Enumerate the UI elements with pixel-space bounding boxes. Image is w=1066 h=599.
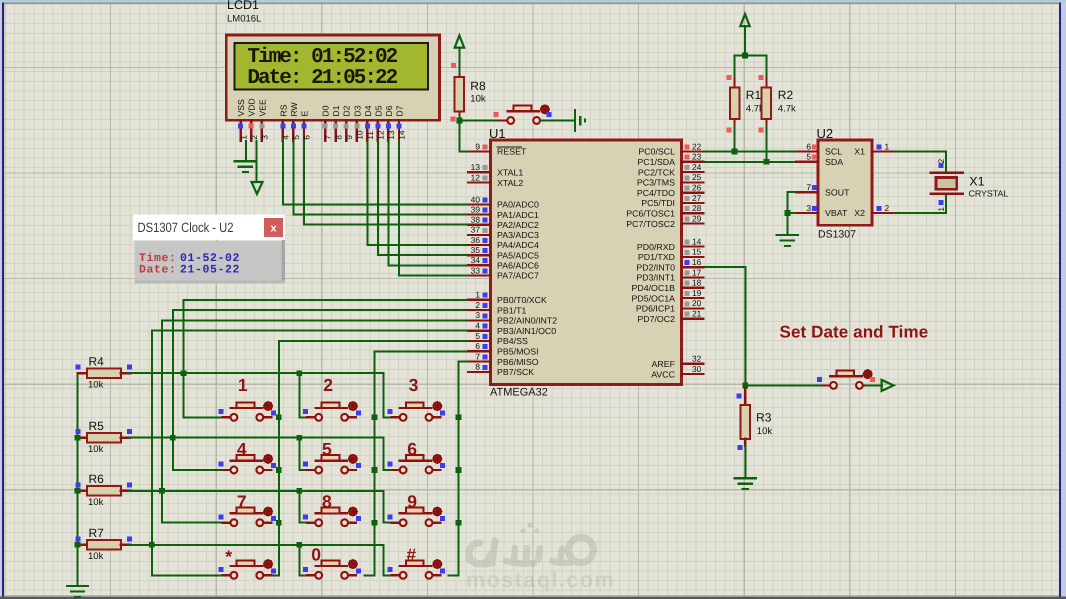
LCD pin 3 VEE	[257, 99, 269, 141]
svg-text:R5: R5	[89, 419, 105, 433]
svg-text:2: 2	[475, 300, 480, 310]
svg-text:PD0/RXD: PD0/RXD	[637, 242, 675, 252]
U1 pin 28 PC6/TOSC1	[626, 203, 703, 218]
pushbutton 9 actuation target	[433, 508, 441, 516]
U2 pin 6 SCL	[796, 141, 842, 156]
svg-text:D2: D2	[342, 105, 352, 116]
pushbutton 6 actuator bar	[400, 460, 432, 462]
pushbutton SET right terminal	[862, 384, 871, 386]
pushbutton 1 actuation target	[264, 402, 272, 410]
svg-text:E: E	[300, 111, 310, 117]
pushbutton SET actuation target	[864, 370, 872, 378]
svg-text:*: *	[225, 546, 232, 566]
pushbutton 0 left terminal	[307, 574, 316, 576]
resistor R4	[78, 368, 131, 378]
window bottom bar	[0, 597, 1066, 599]
wire U1 PB1 to keypad row 2	[173, 310, 468, 470]
wire junction row2-middle feed	[296, 435, 302, 441]
pushbutton 8 left terminal	[307, 522, 316, 524]
U1 pin 15 PD1/TXD	[638, 247, 704, 262]
svg-text:VBAT: VBAT	[825, 208, 848, 218]
wire VCC tee to R1 and R2	[735, 55, 767, 79]
pushbutton 6 actuation target	[433, 455, 441, 463]
svg-text:D1: D1	[331, 105, 341, 116]
ground under R3	[735, 477, 756, 479]
svg-text:39: 39	[471, 204, 481, 214]
svg-text:10k: 10k	[757, 426, 773, 437]
pushbutton 1 actuator bar	[231, 407, 263, 409]
rtc U2 body	[818, 140, 872, 225]
wire row 3 to middle button	[299, 491, 307, 523]
svg-text:PB7/SCK: PB7/SCK	[497, 367, 534, 377]
pushbutton 5 actuator bar	[316, 460, 348, 462]
pushbutton 7 right terminal	[263, 522, 272, 524]
wire SCL PC0 to U2	[704, 151, 797, 153]
U1 pin 14 PD0/RXD	[637, 236, 704, 251]
window top bar	[0, 0, 1066, 3]
power arrow right of set button	[882, 380, 894, 391]
svg-text:XTAL2: XTAL2	[497, 178, 523, 188]
svg-text:34: 34	[471, 255, 481, 265]
svg-text:18: 18	[692, 278, 702, 288]
svg-text:R6: R6	[89, 472, 105, 486]
resistor R7	[78, 540, 131, 550]
wire U1 PB5 keypad column 2	[363, 351, 468, 575]
pushbutton 2 actuation target	[349, 402, 357, 410]
wire junction rail-R5	[75, 435, 81, 441]
wire U1 PB4 keypad column 1	[268, 341, 468, 575]
svg-text:D4: D4	[363, 105, 373, 116]
svg-text:11: 11	[366, 131, 375, 140]
keypad button 6 state squares	[388, 462, 393, 467]
U1 pin 23 PC1/SDA	[637, 152, 703, 167]
resistor R8	[455, 74, 464, 117]
LCD pin 1 VSS	[236, 99, 248, 141]
R4 state squares	[76, 365, 81, 370]
pushbutton 9 left terminal	[392, 522, 401, 524]
svg-text:10k: 10k	[88, 379, 104, 390]
svg-text:SOUT: SOUT	[825, 187, 850, 197]
resistor R6	[78, 486, 131, 496]
pushbutton * actuation target	[264, 560, 272, 568]
svg-text:24: 24	[692, 162, 702, 172]
U2 pin 1 X1	[854, 141, 894, 156]
wire junction col1-row1	[276, 414, 282, 420]
pushbutton 9 actuator bar	[400, 512, 432, 514]
svg-text:PC1/SDA: PC1/SDA	[637, 157, 675, 167]
svg-text:D3: D3	[352, 105, 362, 116]
LCD pin 8 D1	[331, 105, 343, 141]
pushbutton SET actuator bar	[830, 375, 862, 377]
svg-text:#: #	[406, 544, 416, 564]
R1 terminal marker squares	[727, 75, 732, 80]
U1 pin 38 PA2/ADC2	[468, 215, 539, 230]
wire row 1 to middle button	[299, 373, 307, 417]
svg-text:3: 3	[475, 310, 480, 320]
pushbutton 4 actuator bar	[231, 460, 263, 462]
U1 pin 36 PA4/ADC4	[468, 235, 539, 250]
svg-text:Set Date and Time: Set Date and Time	[780, 323, 929, 342]
LCD pin 2 VDD	[247, 98, 259, 141]
svg-text:10k: 10k	[470, 94, 486, 105]
svg-text:XTAL1: XTAL1	[497, 168, 523, 178]
svg-text:R2: R2	[778, 88, 794, 102]
svg-text:D6: D6	[384, 105, 394, 116]
svg-text:35: 35	[471, 245, 481, 255]
svg-text:7: 7	[237, 492, 247, 512]
pushbutton RESET actuator bar	[508, 110, 540, 112]
svg-text:LM016L: LM016L	[227, 14, 261, 25]
svg-text:PD5/OC1A: PD5/OC1A	[631, 293, 675, 303]
wire U2 SOUT to ground	[787, 192, 796, 234]
svg-text:9: 9	[475, 141, 480, 151]
wire junction PB1-row2	[170, 435, 176, 441]
wire LCD D4 to U1 row 245.0	[367, 140, 468, 245]
svg-text:PC7/TOSC2: PC7/TOSC2	[626, 219, 675, 229]
U1 pin 32 AREF	[652, 354, 704, 369]
pushbutton 9 right terminal	[432, 522, 441, 524]
svg-text:21-05-22: 21-05-22	[180, 263, 240, 276]
reset button state squares	[494, 112, 499, 117]
LCD pin 6 E	[300, 111, 312, 142]
svg-text:PB1/T1: PB1/T1	[497, 305, 526, 315]
svg-text:38: 38	[471, 215, 481, 225]
svg-text:10k: 10k	[88, 497, 104, 508]
wire junction row4-middle feed	[296, 542, 302, 548]
resistor R1	[730, 78, 739, 128]
U2 pin 5 SDA	[796, 152, 843, 167]
wire junction PB0-row1	[181, 370, 187, 376]
wire row 2 to right button	[384, 438, 392, 470]
wire junction PB2-row3	[159, 488, 165, 494]
LCD pin 9 D2	[342, 105, 354, 141]
svg-text:14: 14	[692, 236, 702, 246]
svg-text:10k: 10k	[88, 551, 104, 562]
svg-text:2: 2	[323, 375, 333, 395]
wire LCD D5 to U1 row 255.2	[378, 140, 468, 255]
keypad button # state squares	[388, 567, 393, 572]
ground under U2	[777, 234, 798, 236]
U1 pin 16 PD2/INT0	[636, 257, 703, 272]
power arrow VCC above R8	[455, 35, 464, 47]
svg-text:PB2/AIN0/INT2: PB2/AIN0/INT2	[497, 316, 557, 326]
pushbutton 3 actuator bar	[400, 407, 432, 409]
keypad button 9 state squares	[388, 514, 393, 519]
crystal X1 body	[936, 178, 957, 190]
U1 pin 39 PA1/ADC1	[468, 204, 539, 219]
svg-text:Time: 01:52:02: Time: 01:52:02	[247, 46, 397, 69]
svg-text:6: 6	[475, 341, 480, 351]
svg-text:R1: R1	[746, 88, 762, 102]
popup DS1307 Clock window	[133, 215, 285, 284]
svg-text:PA2/ADC2: PA2/ADC2	[497, 220, 539, 230]
pushbutton 0 actuator bar	[316, 565, 348, 567]
svg-text:23: 23	[692, 152, 702, 162]
U1 pin 30 AVCC	[651, 364, 703, 379]
svg-text:VEE: VEE	[257, 99, 267, 116]
svg-text:29: 29	[692, 213, 702, 223]
svg-text:1: 1	[885, 141, 890, 151]
svg-text:PA7/ADC7: PA7/ADC7	[497, 271, 539, 281]
wire U2 X2 to crystal	[894, 195, 946, 213]
svg-text:PA6/ADC6: PA6/ADC6	[497, 261, 539, 271]
svg-text:R4: R4	[89, 354, 105, 368]
svg-text:7: 7	[806, 182, 811, 192]
svg-text:x: x	[270, 223, 277, 235]
pushbutton 1 left terminal	[222, 416, 231, 418]
wire U1 PB3 to keypad row 4	[152, 331, 468, 576]
LCD pin 11 D4	[363, 105, 375, 141]
LCD pin 5 RW	[289, 101, 301, 141]
svg-text:D0: D0	[321, 105, 331, 116]
resistor R3	[741, 389, 750, 446]
wire junction VCC tee	[742, 53, 748, 59]
pushbutton 4 actuation target	[264, 455, 272, 463]
U1 pin 8 PB7/SCK	[468, 362, 534, 377]
keypad button 0 state squares	[303, 567, 308, 572]
pushbutton 8 actuator bar	[316, 512, 348, 514]
keypad button 4 state squares	[218, 462, 223, 467]
pushbutton 3 left terminal	[392, 416, 401, 418]
pushbutton 3 actuation target	[433, 402, 441, 410]
wire keypad left rail to ground	[77, 373, 79, 585]
U1 pin 29 PC7/TOSC2	[626, 213, 703, 228]
wire junction col3-row1	[456, 414, 462, 420]
pushbutton 0 actuation target	[349, 560, 357, 568]
svg-text:D7: D7	[395, 105, 405, 116]
svg-text:21: 21	[692, 309, 702, 319]
svg-text:PD1/TXD: PD1/TXD	[638, 252, 675, 262]
svg-text:40: 40	[471, 194, 481, 204]
wire junction col2-row1	[372, 414, 378, 420]
wire U2 VBAT to ground branch	[787, 212, 796, 214]
wire R8 bottom to reset button	[459, 116, 507, 120]
pushbutton # right terminal	[432, 574, 441, 576]
wire junction to set button	[745, 385, 822, 387]
R6 state squares	[76, 482, 81, 487]
svg-text:5: 5	[292, 135, 301, 140]
wire R1 bottom to SCL line	[734, 126, 736, 152]
svg-text:0: 0	[311, 544, 321, 564]
ground under LCD	[235, 160, 256, 162]
pushbutton 3 right terminal	[432, 416, 441, 418]
svg-text:5: 5	[475, 331, 480, 341]
svg-text:PC3/TMS: PC3/TMS	[637, 178, 675, 188]
svg-text:SDA: SDA	[825, 157, 843, 167]
U1 pin 34 PA6/ADC6	[468, 255, 539, 270]
svg-text:PC4/TDO: PC4/TDO	[637, 188, 675, 198]
U1 pin 19 PD5/OC1A	[631, 288, 703, 303]
wire junction col3-row3	[456, 520, 462, 526]
wire junction R2-SDA	[764, 159, 770, 165]
svg-text:SCL: SCL	[825, 147, 842, 157]
pushbutton SET left terminal	[822, 384, 831, 386]
LCD pin 14 D7	[395, 105, 407, 141]
svg-text:13: 13	[471, 162, 481, 172]
wire set button to power arrow	[867, 384, 883, 386]
svg-text:27: 27	[692, 193, 702, 203]
svg-text:9: 9	[345, 135, 354, 140]
pushbutton * left terminal	[222, 574, 231, 576]
keypad button 7 state squares	[218, 514, 223, 519]
U1 pin 9 RESET	[468, 141, 527, 156]
pushbutton # actuator bar	[400, 565, 432, 567]
U1 pin 3 PB2/AIN0/INT2	[468, 310, 557, 325]
crystal X1 bottom plate	[931, 192, 963, 194]
resistor R2	[762, 78, 771, 128]
wire U1 PB0 to keypad row 1	[184, 300, 469, 418]
R2 terminal marker squares	[759, 75, 764, 80]
wire junction PD2-R3-button	[742, 383, 748, 389]
svg-text:22: 22	[692, 141, 702, 151]
keypad button 5 state squares	[303, 462, 308, 467]
svg-text:4: 4	[475, 321, 480, 331]
svg-text:1: 1	[937, 207, 946, 212]
svg-text:PD4/OC1B: PD4/OC1B	[631, 283, 675, 293]
wire row 4 to middle button	[299, 545, 307, 576]
pushbutton 2 right terminal	[348, 416, 357, 418]
svg-text:PC6/TOSC1: PC6/TOSC1	[626, 209, 675, 219]
wire junction col1-row3	[276, 520, 282, 526]
svg-text:AVCC: AVCC	[651, 369, 675, 379]
svg-text:4.7k: 4.7k	[778, 104, 796, 115]
wire keypad row 4	[129, 544, 384, 546]
U1 pin 26 PC4/TDO	[637, 183, 704, 198]
svg-text:6: 6	[303, 135, 312, 140]
U1 pin 6 PB5/MOSI	[468, 341, 539, 356]
wire LCD RS to U1 row 204.5	[283, 140, 468, 205]
wire junction PB3-row4	[149, 542, 155, 548]
svg-text:16: 16	[692, 257, 702, 267]
wire R8 junction to U1 RESET pin	[459, 120, 468, 151]
svg-text:14: 14	[398, 130, 407, 140]
svg-text:R7: R7	[89, 526, 105, 540]
U1 pin 35 PA5/ADC5	[468, 245, 539, 260]
pushbutton 5 actuation target	[349, 455, 357, 463]
sheet right border	[1059, 3, 1061, 599]
U1 pin 27 PC5/TDI	[641, 193, 703, 208]
U2 pin 3 VBAT	[796, 203, 848, 218]
U1 pin 20 PD6/ICP1	[636, 298, 704, 313]
svg-text:RESET: RESET	[497, 147, 527, 157]
wire row 1 to right button	[384, 373, 392, 417]
wire junction row1-middle feed	[296, 370, 302, 376]
U1 pin 4 PB3/AIN1/OC0	[468, 321, 556, 336]
U1 pin 18 PD4/OC1B	[631, 278, 703, 293]
pushbutton # actuation target	[433, 560, 441, 568]
ground under keypad rail	[67, 585, 88, 587]
svg-text:3: 3	[260, 135, 269, 140]
svg-text:13: 13	[387, 130, 396, 140]
svg-text:5: 5	[322, 439, 332, 459]
U1 pin 1 PB0/T0/XCK	[468, 290, 547, 305]
svg-text:PD2/INT0: PD2/INT0	[636, 262, 675, 272]
svg-text:AREF: AREF	[652, 359, 676, 369]
pushbutton 0 right terminal	[348, 574, 357, 576]
U1 pin 13 XTAL1	[468, 162, 523, 177]
svg-text:Date:: Date:	[139, 263, 177, 276]
keypad button 2 state squares	[303, 409, 308, 414]
svg-text:5: 5	[806, 152, 811, 162]
svg-text:PA1/ADC1: PA1/ADC1	[497, 210, 539, 220]
resistor R5	[78, 433, 131, 443]
svg-text:7: 7	[475, 351, 480, 361]
svg-text:PB0/T0/XCK: PB0/T0/XCK	[497, 295, 547, 305]
svg-text:PB3/AIN1/OC0: PB3/AIN1/OC0	[497, 326, 556, 336]
pushbutton 7 actuation target	[264, 508, 272, 516]
svg-text:2: 2	[937, 158, 946, 163]
wire R3 bottom to ground	[744, 445, 746, 478]
svg-text:1: 1	[239, 135, 248, 140]
svg-text:PD3/INT1: PD3/INT1	[636, 273, 675, 283]
wire LCD D6 to U1 row 265.3	[388, 140, 468, 265]
svg-text:R3: R3	[756, 411, 772, 425]
keypad button 8 state squares	[303, 514, 308, 519]
pushbutton RESET right terminal	[540, 119, 549, 121]
U1 pin 5 PB4/SS	[468, 331, 528, 346]
R3 state squares	[736, 394, 741, 399]
wire junction col2-row3	[372, 520, 378, 526]
U1 pin 25 PC3/TMS	[637, 172, 704, 187]
wire LCD VSS to ground	[245, 140, 247, 160]
svg-text:PB4/SS: PB4/SS	[497, 336, 528, 346]
R5 state squares	[76, 429, 81, 434]
svg-text:R8: R8	[470, 79, 486, 93]
wire R2 bottom to SDA line	[765, 126, 767, 162]
wire LCD D7 to U1 row 275.5	[399, 140, 468, 276]
svg-text:X2: X2	[854, 208, 865, 218]
power arrow VCC above R1 R2	[740, 14, 749, 26]
U1 pin 33 PA7/ADC7	[468, 265, 539, 280]
wire LCD E to U1 row 224.7	[304, 140, 468, 225]
pushbutton RESET actuation target	[541, 105, 549, 113]
wire U1 PB6 keypad column 3	[448, 362, 468, 576]
wire keypad row 1	[129, 372, 384, 374]
svg-text:Date: 21:05:22: Date: 21:05:22	[247, 67, 397, 90]
wire reset button to ground	[540, 120, 574, 122]
pushbutton 5 left terminal	[307, 469, 316, 471]
wire row 2 to middle button	[299, 438, 307, 470]
svg-text:PC0/SCL: PC0/SCL	[638, 147, 675, 157]
U1 pin 22 PC0/SCL	[638, 141, 703, 156]
wire junction R1-SCL	[732, 149, 738, 155]
svg-text:mostaql.com: mostaql.com	[466, 568, 615, 592]
svg-text:ATMEGA32: ATMEGA32	[490, 387, 548, 399]
svg-text:30: 30	[692, 364, 702, 374]
keypad button * state squares	[218, 567, 223, 572]
keypad button 1 state squares	[218, 409, 223, 414]
svg-text:12: 12	[471, 172, 481, 182]
svg-text:PD7/OC2: PD7/OC2	[637, 314, 675, 324]
mcu U1 body	[491, 140, 682, 385]
U1 pin 21 PD7/OC2	[637, 309, 703, 324]
LCD screen	[235, 43, 428, 90]
pushbutton 2 actuator bar	[316, 407, 348, 409]
wire U1 PB2 to keypad row 3	[162, 320, 468, 522]
pushbutton * actuator bar	[231, 565, 263, 567]
svg-text:6: 6	[806, 141, 811, 151]
pushbutton 2 left terminal	[307, 416, 316, 418]
svg-text:RS: RS	[278, 104, 288, 116]
svg-text:15: 15	[692, 247, 702, 257]
pushbutton RESET left terminal	[499, 119, 508, 121]
svg-text:DS1307 Clock - U2: DS1307 Clock - U2	[138, 220, 234, 235]
svg-text:3: 3	[806, 203, 811, 213]
svg-text:PB5/MOSI: PB5/MOSI	[497, 347, 539, 357]
svg-text:20: 20	[692, 298, 702, 308]
svg-text:4: 4	[237, 439, 247, 459]
svg-text:PA3/ADC3: PA3/ADC3	[497, 230, 539, 240]
